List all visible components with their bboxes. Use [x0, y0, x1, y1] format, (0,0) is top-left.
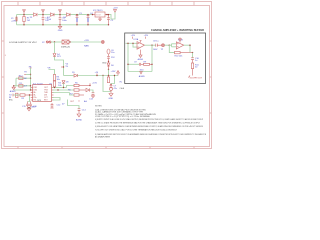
svg-text:NOTES:: NOTES: [95, 105, 102, 107]
supply symbol +20V arrow up [117, 71, 120, 76]
junction dot [92, 14, 93, 15]
capacitor C14 [78, 109, 81, 114]
net stub [78, 100, 80, 101]
svg-text:RAW: RAW [84, 44, 89, 47]
junction dot [29, 94, 30, 95]
wire feedback drop op2 [169, 45, 174, 52]
resistor R7 [74, 94, 84, 96]
svg-text:4) SUPPLY INPUT IS A LOOSE 20: 4) SUPPLY INPUT IS A LOOSE 20 VDC WALL S… [95, 118, 204, 121]
resistor R5 [74, 84, 90, 86]
wire ref row [49, 70, 55, 75]
junction dot [132, 43, 133, 44]
svg-text:IN OUT: IN OUT [96, 14, 101, 16]
net flag stub top [30, 67, 32, 69]
capacitor C11 row2 [19, 85, 23, 88]
wire feedback row [128, 63, 139, 65]
label C3 value vertical [77, 18, 78, 22]
junction dot [63, 87, 64, 88]
junction dot [108, 14, 109, 15]
wire output chain vertical [192, 53, 194, 58]
junction dot [169, 45, 170, 46]
junction dot [76, 14, 77, 15]
wire row1 up to r5 [67, 86, 75, 88]
svg-text:LOW CUTOFF F = 1/(2*PI*R9*C9): LOW CUTOFF F = 1/(2*PI*R9*C9) = 0.72 Hz … [95, 115, 151, 118]
wire row1 [16, 77, 31, 79]
svg-text:AS DRAWN HERE: AS DRAWN HERE [95, 135, 111, 138]
svg-text:5) THE IC1 STAGE PROVIDES THE: 5) THE IC1 STAGE PROVIDES THE REFERENCE … [95, 122, 201, 125]
IC1 right pin stubs [52, 88, 54, 101]
ground symbol left [12, 86, 15, 90]
ground symbol GND2 under regulator [99, 19, 102, 21]
svg-text:CHARGE AMPLIFIER + INVERTING B: CHARGE AMPLIFIER + INVERTING BUFFER [151, 29, 204, 32]
wire top rail right [70, 14, 93, 16]
junction dot [76, 24, 77, 25]
junction dot with left stub [63, 66, 64, 67]
label C4 value vertical [88, 18, 89, 22]
svg-text:+15V: +15V [111, 71, 117, 73]
capacitor C12 below ic [50, 103, 53, 108]
junction dot row1 [30, 78, 31, 79]
junction dot [151, 45, 152, 46]
supply symbol VCC op1 [140, 40, 142, 42]
svg-text:C8 1u: C8 1u [153, 41, 159, 43]
frame border [2, 2, 212, 149]
diode D5 on rail [74, 74, 78, 77]
wire d7 to cap [90, 90, 94, 93]
junction dot [30, 74, 31, 75]
junction dot [23, 14, 24, 15]
junction dot node 20V [54, 41, 55, 42]
junction dot [23, 24, 24, 25]
resistor R1 [23, 15, 25, 25]
junction dot [114, 75, 115, 76]
svg-text:IC1 TL072: IC1 TL072 [33, 83, 44, 85]
junction dot plus stub [89, 85, 90, 86]
capacitor C15 below ic left [26, 102, 29, 108]
supply symbol VCC1 [23, 10, 26, 15]
wire top rail mid2 [54, 14, 67, 16]
wire left vertical [127, 43, 129, 71]
wire ic row4 [53, 98, 61, 101]
net stub pin [96, 74, 98, 76]
svg-text:+24V: +24V [11, 20, 17, 22]
capacitor C1 [42, 15, 45, 25]
svg-text:25V: 25V [111, 57, 115, 59]
junction dot [108, 61, 109, 62]
wire stub left [26, 74, 31, 76]
wire rail A horizontal [64, 75, 74, 77]
capacitor C7 electrolytic [110, 86, 113, 94]
connector X1 input pins [16, 17, 18, 21]
svg-text:+20V: +20V [84, 40, 90, 42]
wire bias bottom row [128, 71, 152, 73]
ground symbol GND3 [109, 94, 113, 97]
junction dot [42, 14, 43, 15]
regulator IC3 78L15 [93, 12, 108, 19]
capacitor C16 below ic left [29, 102, 32, 108]
resistor R3b divider [53, 81, 55, 88]
IC1 box [33, 85, 52, 102]
junction dot [106, 14, 107, 15]
junction dot [108, 69, 109, 70]
capacitor C8 coupling [156, 44, 162, 47]
zener diode D4 [53, 54, 56, 57]
junction dot [28, 107, 29, 108]
svg-text:DMS-20: DMS-20 [61, 46, 70, 48]
capacitor C2 [59, 15, 62, 25]
wire input vertical [16, 15, 18, 25]
svg-text:2) ALL CAPACITORS 50V CERAMIC: 2) ALL CAPACITORS 50V CERAMIC X7R TYPE [95, 111, 144, 114]
svg-text:AGND: AGND [76, 119, 83, 122]
diode D1 [34, 13, 38, 16]
svg-text:LOOSE SUPPLY 20 VDC: LOOSE SUPPLY 20 VDC [9, 42, 37, 44]
svg-text:100V: 100V [153, 49, 158, 51]
wire branch below [28, 95, 31, 102]
test point TP2 [162, 44, 165, 47]
wire regulator output rail [106, 12, 116, 19]
wire supply to module [51, 41, 62, 43]
IC1 pin names right column [44, 87, 49, 102]
wire x3 to r2 [14, 94, 21, 96]
junction dot [42, 24, 43, 25]
wire vertical left [15, 78, 17, 86]
ground symbol VEE op1 arrow [139, 52, 142, 57]
wire vertical right [30, 68, 32, 90]
junction dot row2 [30, 85, 31, 86]
op-amp IC2A [137, 41, 145, 52]
svg-text:DIP8: DIP8 [37, 100, 41, 102]
filter FB1 [16, 93, 19, 97]
resistor R3a divider [53, 75, 55, 81]
IC1 left pin stubs [31, 88, 33, 101]
connector X2 pins [46, 41, 51, 43]
wire box input horizontal [126, 42, 138, 44]
svg-text:IC3 78L15: IC3 78L15 [93, 10, 103, 12]
wire module to test point [69, 41, 102, 43]
wire op2 output [184, 45, 190, 52]
svg-text:CH A: CH A [120, 87, 125, 90]
wire ic row in [14, 89, 33, 91]
wire ic row3 [53, 92, 70, 94]
capacitor C6 electrolytic top [107, 49, 110, 61]
resistor R11 output [191, 60, 193, 76]
wire row3 drop [70, 93, 75, 96]
wire row2 [14, 85, 31, 87]
svg-text:GND: GND [58, 30, 63, 32]
resistor R12 row1 [19, 77, 23, 80]
wire below ic [68, 100, 80, 109]
svg-text:+15V: +15V [131, 35, 136, 37]
junction dot [127, 64, 128, 65]
junction dot [108, 75, 109, 76]
IC1 pin names left column [33, 87, 37, 102]
junction dot [110, 84, 111, 85]
ground symbol bias arrow [140, 72, 143, 74]
svg-text:R10 10k: R10 10k [175, 56, 184, 58]
net tick flag left [132, 37, 134, 39]
wire zener jog [55, 57, 64, 76]
junction dot [108, 24, 109, 25]
wire loop left [103, 76, 111, 92]
junction dot gnd [13, 85, 14, 86]
ground symbol GND4 [77, 114, 81, 117]
dc module PS1 [62, 40, 69, 44]
svg-text:AGND: AGND [10, 90, 16, 93]
svg-text:8) CHARGE AMPLIFIER SECTION IS: 8) CHARGE AMPLIFIER SECTION IS BUILT ON … [95, 133, 207, 136]
svg-text:GND: GND [102, 63, 107, 65]
label SCOPE OUT [189, 76, 191, 78]
diode D8 on zener rail [62, 81, 65, 84]
svg-text:VR: VR [48, 68, 51, 70]
wire tp to op2 [165, 44, 170, 46]
svg-text:6) USE A SHORT LOW CAPACITANCE: 6) USE A SHORT LOW CAPACITANCE COAX BETW… [95, 125, 203, 128]
capacitor C3 electrolytic [76, 15, 79, 25]
wire caps join [28, 107, 31, 109]
connector pin X3 [12, 94, 14, 97]
wire rail A continues [78, 75, 119, 77]
test point TP1 [101, 41, 104, 44]
wire feedback right vertical [151, 45, 153, 71]
net tick flag right [145, 37, 147, 39]
svg-text:+15V: +15V [113, 8, 119, 10]
svg-text:GND: GND [109, 98, 114, 100]
wire op1 output [145, 44, 156, 46]
svg-text:+15V: +15V [92, 82, 98, 84]
supply symbol VCC3 [59, 10, 62, 15]
junction dot [59, 14, 60, 15]
junction dot [30, 89, 31, 90]
supply symbol VCC op2 [179, 37, 182, 40]
junction dot [151, 64, 152, 65]
wire zener drop vertical [54, 42, 56, 53]
supply symbol VCC2 [42, 10, 45, 15]
op-amp IC2B [176, 41, 184, 49]
svg-text:1M: 1M [24, 78, 27, 80]
junction dot [192, 52, 193, 53]
junction dot [189, 45, 190, 46]
junction dot [87, 14, 88, 15]
junction dot [59, 24, 60, 25]
wire top rail mid [38, 14, 51, 16]
sub-circuit box [125, 33, 206, 84]
ground symbol GND1 [58, 25, 62, 29]
wire zener rail to row1 [63, 83, 65, 87]
junction dot [96, 75, 97, 76]
wire ic row1 [53, 87, 67, 89]
wire feedback tap vertical [133, 43, 138, 47]
capacitor C13 [91, 93, 94, 98]
capacitor C5 [107, 15, 110, 25]
junction dot [57, 89, 58, 90]
resistor R9 feedback [144, 63, 153, 65]
svg-text:7) SCOPE OUT DRIVES 1M LOAD; F: 7) SCOPE OUT DRIVES 1M LOAD; FOR 50 OHM … [95, 129, 178, 132]
junction dot [87, 24, 88, 25]
wire top rail [17, 14, 34, 16]
diode D7 [86, 88, 90, 91]
resistor R4 bleed [107, 76, 109, 83]
wire op2 inputs [169, 44, 176, 47]
junction dot [54, 87, 55, 88]
wire cap drop [111, 76, 115, 86]
resistor R10 feedback [175, 51, 193, 53]
junction dot [102, 75, 103, 76]
capacitor C10 output [191, 58, 194, 60]
svg-text:SCOPE OUT: SCOPE OUT [190, 78, 203, 80]
diode D2 [51, 13, 55, 16]
capacitor C4 electrolytic [87, 15, 90, 25]
resistor R6 [74, 89, 86, 91]
junction dot [69, 41, 70, 42]
supply symbol +15V top right [114, 10, 117, 12]
wire bottom ground rail [17, 24, 109, 26]
wire ic row2 [53, 89, 75, 91]
capacitor C9 feedback [139, 63, 143, 66]
svg-text:AGND: AGND [139, 75, 146, 78]
ground symbol below caps [27, 108, 31, 111]
diode D3 [67, 13, 71, 16]
svg-text:+15V: +15V [144, 35, 149, 37]
svg-text:AG: AG [84, 100, 87, 103]
svg-text:IC2A: IC2A [134, 38, 139, 41]
diode D6 vertical [107, 62, 110, 70]
svg-text:GND: GND [31, 107, 36, 109]
wire diode to rail A [108, 70, 110, 76]
junction dot [127, 43, 128, 44]
net tick [24, 74, 26, 76]
resistor R2 input [20, 94, 31, 96]
